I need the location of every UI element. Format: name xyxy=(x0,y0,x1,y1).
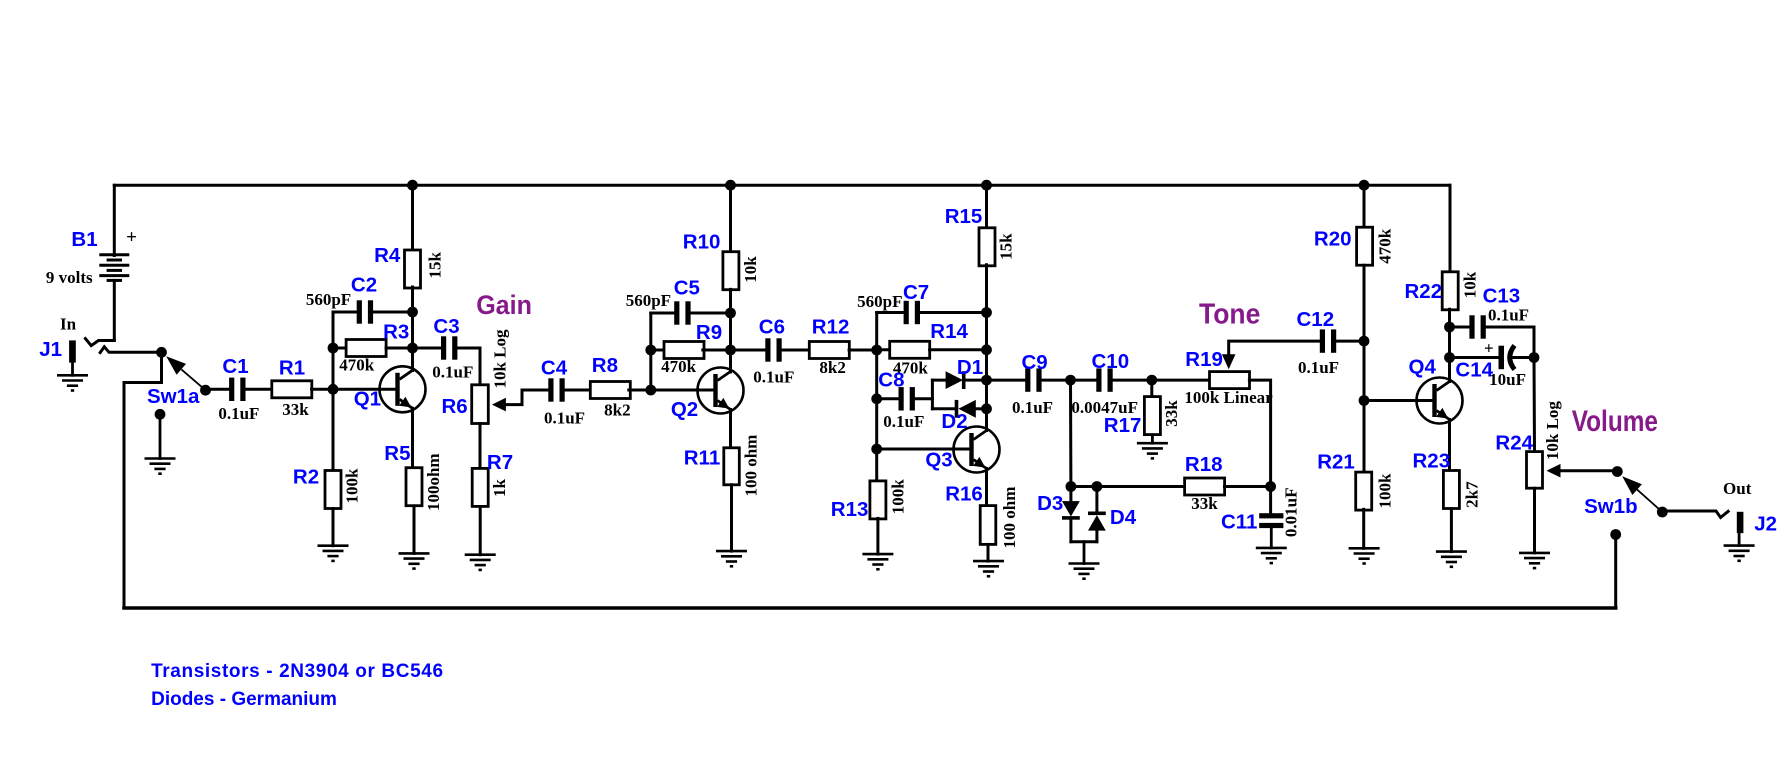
wire D2 left lead xyxy=(932,407,954,410)
capacitor C8 xyxy=(899,387,904,410)
wire R3 right lead xyxy=(386,347,412,350)
wire C7 left lead xyxy=(877,311,904,314)
node R18/C11 xyxy=(1265,481,1276,492)
transistor Q2 xyxy=(698,368,744,414)
transistor Q3 xyxy=(954,427,1000,473)
resistor R10 xyxy=(723,252,739,290)
svg-text:R5: R5 xyxy=(384,442,410,465)
wire R4 to collector xyxy=(411,287,414,371)
wire C7 right lead xyxy=(920,311,987,314)
svg-text:J2: J2 xyxy=(1754,512,1777,535)
ground J1 xyxy=(57,374,88,377)
wire battery positive lead xyxy=(113,185,116,255)
wire battery negative lead xyxy=(113,280,116,340)
svg-text:Q1: Q1 xyxy=(354,388,381,411)
resistor R13 xyxy=(870,481,886,519)
wire C3 to R6 xyxy=(457,348,480,385)
wiper arrow R6 xyxy=(492,398,506,412)
svg-text:0.1uF: 0.1uF xyxy=(544,408,585,427)
svg-text:R13: R13 xyxy=(831,498,869,521)
svg-text:R2: R2 xyxy=(293,466,319,489)
wire C14 right lead xyxy=(1514,356,1535,359)
diode D1 xyxy=(946,371,963,389)
wire R18 right lead xyxy=(1225,485,1271,488)
node C13 left xyxy=(1444,322,1455,333)
battery B1 xyxy=(99,255,129,281)
wire Q3 bias vertical xyxy=(875,313,878,482)
svg-text:8k2: 8k2 xyxy=(819,358,845,377)
wire R10 top lead xyxy=(729,185,732,252)
svg-text:560pF: 560pF xyxy=(857,292,902,311)
wire C5 left lead xyxy=(651,312,675,315)
wire D4 top lead xyxy=(1095,487,1098,513)
resistor R17 xyxy=(1144,397,1160,435)
ground R23 xyxy=(1436,550,1467,553)
svg-text:R12: R12 xyxy=(812,315,850,338)
svg-text:D1: D1 xyxy=(957,356,983,379)
svg-text:Gain: Gain xyxy=(476,290,532,320)
switch Sw1a arm arrow xyxy=(166,356,186,375)
resistor R4 xyxy=(405,250,421,288)
node C14 left xyxy=(1444,352,1455,363)
svg-text:C9: C9 xyxy=(1021,351,1047,374)
resistor R18 xyxy=(1185,478,1225,495)
wire R9 left lead xyxy=(651,349,665,352)
capacitor C12 xyxy=(1320,329,1325,352)
svg-text:2k7: 2k7 xyxy=(1463,481,1482,508)
node Sw1a common xyxy=(156,347,167,358)
wire D3 top lead xyxy=(1069,380,1072,486)
resistor R3 xyxy=(346,340,386,357)
junction dot top rail / R15 xyxy=(981,180,992,191)
ground C11 xyxy=(1256,547,1287,550)
jack J1 tip contact xyxy=(85,339,114,346)
svg-text:470k: 470k xyxy=(661,357,697,376)
junction dot top rail / R4 xyxy=(407,180,418,191)
resistor R16 xyxy=(980,506,996,545)
ground Sw1a xyxy=(145,457,176,460)
svg-text:8k2: 8k2 xyxy=(604,401,630,420)
svg-text:33k: 33k xyxy=(1162,400,1181,427)
wire Q3 out to C9 xyxy=(987,379,1026,382)
svg-text:C12: C12 xyxy=(1296,308,1334,331)
wire J2 ground stub xyxy=(1738,533,1741,546)
wire Q1 emitter lead xyxy=(411,408,414,467)
wire R8 to base node xyxy=(629,389,651,392)
resistor R11 xyxy=(724,448,740,485)
svg-text:R23: R23 xyxy=(1412,450,1450,473)
node D3 top xyxy=(1066,481,1077,492)
wire R10 to collector xyxy=(729,289,732,372)
wire R13 ground lead xyxy=(876,518,879,554)
svg-text:10k: 10k xyxy=(1460,271,1479,298)
switch Sw1a arm xyxy=(181,369,205,390)
svg-text:15k: 15k xyxy=(425,252,444,279)
wire bottom bypass rail xyxy=(124,606,1616,610)
switch Sw1b arm arrow xyxy=(1622,476,1642,495)
svg-text:100 ohm: 100 ohm xyxy=(742,435,761,497)
capacitor C4 xyxy=(548,378,553,401)
ground J2 xyxy=(1724,544,1755,547)
capacitor C7 xyxy=(904,301,909,324)
svg-text:C1: C1 xyxy=(222,355,248,378)
svg-text:560pF: 560pF xyxy=(626,291,671,310)
wire R5 ground lead xyxy=(413,506,416,554)
svg-text:10k: 10k xyxy=(741,256,760,283)
wire Q2 bias vertical xyxy=(649,313,652,390)
node Q2 base xyxy=(645,385,656,396)
node Sw1b common xyxy=(1612,466,1623,477)
diode D2 xyxy=(955,400,959,418)
wire C6 to R12 xyxy=(782,349,810,352)
wire R11 ground lead xyxy=(730,485,733,551)
svg-text:D3: D3 xyxy=(1037,492,1063,515)
ground R7 xyxy=(465,553,496,556)
wire Q2 emitter lead xyxy=(729,410,732,449)
wiper arrow R19 xyxy=(1222,354,1236,369)
svg-text:100ohm: 100ohm xyxy=(424,453,443,511)
node C9/C10/D3 xyxy=(1065,375,1076,386)
wire C5 right lead xyxy=(691,312,731,315)
svg-text:Out: Out xyxy=(1723,479,1752,498)
svg-text:R22: R22 xyxy=(1404,280,1442,303)
wire R18 left lead xyxy=(1183,485,1186,488)
node R9/collector xyxy=(725,345,736,356)
svg-text:R3: R3 xyxy=(383,320,409,343)
svg-text:R11: R11 xyxy=(684,446,720,469)
svg-text:R19: R19 xyxy=(1185,348,1223,371)
wire R20 down vertical xyxy=(1363,265,1366,474)
capacitor C3 xyxy=(441,336,446,359)
capacitor C5 xyxy=(674,301,679,324)
svg-text:C2: C2 xyxy=(351,274,377,297)
svg-text:0.01uF: 0.01uF xyxy=(1282,488,1301,538)
wire C3 left lead xyxy=(413,347,442,350)
node Sw1a ground pole xyxy=(155,409,166,420)
wire R4 top lead xyxy=(411,185,414,251)
potentiometer R19 xyxy=(1210,372,1250,389)
wire R19 right lead xyxy=(1249,380,1270,486)
svg-text:R7: R7 xyxy=(487,451,513,474)
wire R23 ground lead xyxy=(1450,509,1453,552)
wire C10 left lead xyxy=(1071,379,1097,382)
wire C13 right lead xyxy=(1485,327,1534,358)
switch Sw1b arm xyxy=(1637,490,1662,512)
svg-text:10k Log: 10k Log xyxy=(1543,401,1562,461)
svg-text:R14: R14 xyxy=(930,320,968,343)
wire R21 ground lead xyxy=(1362,509,1365,548)
wiper arrow R24 xyxy=(1547,464,1561,478)
wire C8 left lead xyxy=(877,397,899,400)
node C10/R17/R19 xyxy=(1146,375,1157,386)
wire C9 to D3 node xyxy=(1041,379,1070,382)
wire Q4 emitter lead xyxy=(1448,420,1451,471)
potentiometer R24 xyxy=(1527,452,1543,489)
node Q4 base xyxy=(1359,395,1370,406)
node Q3 base xyxy=(871,444,882,455)
wire D4 bottom lead xyxy=(1095,531,1098,542)
wire D3/D4 top row xyxy=(1071,485,1185,488)
node R9 left xyxy=(645,345,656,356)
wire R22 to Q4 collector xyxy=(1448,309,1451,381)
svg-text:Sw1b: Sw1b xyxy=(1584,495,1638,518)
wire bypass right riser xyxy=(1614,535,1617,609)
jack J1 sleeve contact xyxy=(100,347,161,353)
node R14 right xyxy=(981,344,992,355)
svg-text:R1: R1 xyxy=(279,357,305,380)
svg-text:10uF: 10uF xyxy=(1489,370,1526,389)
wire C14 left lead xyxy=(1450,356,1499,359)
wire Sw1a ground stub xyxy=(159,414,162,458)
wire R3 left lead xyxy=(333,347,346,350)
svg-text:Tone: Tone xyxy=(1199,299,1260,331)
wire rail to R22 xyxy=(1449,185,1452,272)
wire C12 right lead xyxy=(1336,340,1364,343)
wire R12 right lead xyxy=(849,349,877,352)
svg-text:470k: 470k xyxy=(1376,228,1395,264)
svg-text:R4: R4 xyxy=(374,244,401,267)
resistor R22 xyxy=(1442,272,1458,310)
wire Q2 collector to C6 xyxy=(731,349,766,352)
junction dot top rail / R20 xyxy=(1359,180,1370,191)
svg-text:C6: C6 xyxy=(759,315,785,338)
svg-text:R20: R20 xyxy=(1314,227,1352,250)
svg-text:470k: 470k xyxy=(339,356,375,375)
svg-text:C5: C5 xyxy=(674,277,700,300)
svg-text:R10: R10 xyxy=(683,231,721,254)
resistor R12 xyxy=(809,342,849,359)
capacitor C13 xyxy=(1469,315,1474,338)
svg-text:33k: 33k xyxy=(282,400,309,419)
wire D3/D4 ground stub xyxy=(1083,542,1086,564)
resistor R14 xyxy=(890,341,930,358)
svg-text:100k: 100k xyxy=(1376,473,1395,509)
svg-text:R16: R16 xyxy=(945,483,983,506)
wire R15 top lead xyxy=(985,185,988,229)
wire R16 ground lead xyxy=(987,544,990,561)
resistor R20 xyxy=(1357,227,1373,265)
wire R17 top lead xyxy=(1150,380,1153,397)
svg-text:+: + xyxy=(1484,339,1494,358)
diode D3 xyxy=(1062,501,1080,516)
svg-text:C3: C3 xyxy=(433,315,459,338)
wire R14 right lead xyxy=(930,348,987,351)
wire bypass down-left xyxy=(124,352,162,607)
node R12/R14/C7 xyxy=(871,345,882,356)
node Sw1a throw xyxy=(200,385,211,396)
svg-text:0.1uF: 0.1uF xyxy=(432,363,473,382)
svg-text:R17: R17 xyxy=(1104,414,1142,437)
svg-text:33k: 33k xyxy=(1191,494,1218,513)
wire R9 right lead xyxy=(703,349,731,352)
wire D3 bottom lead xyxy=(1069,520,1072,542)
node R3 left xyxy=(328,343,339,354)
resistor R5 xyxy=(406,468,422,506)
ground R17 xyxy=(1137,442,1168,445)
wire R24 wiper to Sw1b xyxy=(1561,469,1618,472)
svg-text:C4: C4 xyxy=(541,357,568,380)
node D4 top xyxy=(1092,481,1103,492)
wire D3/D4 bottom bar xyxy=(1071,540,1097,543)
svg-text:R8: R8 xyxy=(592,354,618,377)
svg-text:R9: R9 xyxy=(696,321,722,344)
jack J2 body xyxy=(1737,512,1744,533)
svg-text:R24: R24 xyxy=(1495,432,1533,455)
wire R15 down vertical xyxy=(985,265,988,431)
node Sw1b throw xyxy=(1657,507,1668,518)
capacitor C1 xyxy=(229,378,234,401)
resistor R7 xyxy=(472,468,488,506)
capacitor C9 xyxy=(1025,368,1030,391)
wire C4 to R8 xyxy=(565,389,592,392)
wire D1 right lead xyxy=(966,379,987,382)
svg-text:100k: 100k xyxy=(889,479,908,515)
svg-text:100 ohm: 100 ohm xyxy=(1000,487,1019,549)
svg-text:560pF: 560pF xyxy=(306,290,351,309)
wire Q1 bias vertical xyxy=(332,312,335,389)
node C8 left xyxy=(871,393,882,404)
resistor R21 xyxy=(1356,472,1372,510)
wire C11 top lead xyxy=(1269,487,1272,514)
wire C11 ground lead xyxy=(1270,528,1273,548)
wire R19 wiper to C12 xyxy=(1229,341,1320,354)
wire C13 left lead xyxy=(1450,326,1470,329)
svg-text:0.1uF: 0.1uF xyxy=(218,404,259,423)
junction dot top rail / R10 xyxy=(725,180,736,191)
wire base node to Q2 xyxy=(651,389,714,392)
resistor R15 xyxy=(979,228,995,266)
svg-text:R6: R6 xyxy=(441,395,467,418)
svg-text:J1: J1 xyxy=(39,338,62,361)
wire D1 left lead xyxy=(932,379,945,382)
svg-text:Q3: Q3 xyxy=(925,449,952,472)
wire D2 right lead xyxy=(976,407,987,410)
svg-text:R18: R18 xyxy=(1185,453,1223,476)
svg-text:R15: R15 xyxy=(945,205,983,228)
wire R2 top lead xyxy=(332,389,335,470)
resistor R2 xyxy=(325,471,341,509)
svg-text:C14: C14 xyxy=(1455,359,1493,382)
svg-text:R21: R21 xyxy=(1317,451,1355,474)
svg-text:0.1uF: 0.1uF xyxy=(1012,398,1053,417)
svg-text:Q2: Q2 xyxy=(671,398,698,421)
resistor R9 xyxy=(664,342,704,359)
wire R24 ground lead xyxy=(1533,488,1536,553)
wire C8 right lead xyxy=(915,397,933,400)
svg-text:B1: B1 xyxy=(71,228,97,251)
wire R17 ground lead xyxy=(1151,435,1154,444)
ground R11 xyxy=(716,550,747,553)
node D1/C9 xyxy=(981,375,992,386)
node C7/R15 xyxy=(981,307,992,318)
ground R5 xyxy=(399,552,430,555)
node Q1 base xyxy=(328,384,339,395)
svg-text:0.1uF: 0.1uF xyxy=(1298,358,1339,377)
svg-text:100k Linear: 100k Linear xyxy=(1184,388,1273,407)
node D2 right xyxy=(981,403,992,414)
svg-text:D4: D4 xyxy=(1110,506,1137,529)
transistor Q1 xyxy=(380,366,426,412)
transistor Q4 xyxy=(1417,378,1463,424)
svg-text:0.1uF: 0.1uF xyxy=(753,367,794,386)
node C5/R10 xyxy=(725,308,736,319)
wire base node to Q3 xyxy=(877,448,970,451)
wire R7 ground lead xyxy=(479,507,482,555)
wire Sw1b to J2 xyxy=(1662,511,1728,518)
node R3/collector xyxy=(407,343,418,354)
svg-text:Volume: Volume xyxy=(1572,405,1658,438)
wire R20 top lead xyxy=(1363,185,1366,227)
capacitor C11 xyxy=(1259,513,1283,518)
resistor R23 xyxy=(1443,471,1459,509)
svg-text:Sw1a: Sw1a xyxy=(147,385,200,408)
svg-text:9 volts: 9 volts xyxy=(46,268,93,287)
ground R24 xyxy=(1519,552,1550,555)
svg-text:C13: C13 xyxy=(1483,284,1521,307)
svg-text:100k: 100k xyxy=(343,468,362,504)
wire Q3 emitter lead xyxy=(985,469,988,506)
wire R2 ground lead xyxy=(332,509,335,546)
wire C2 left lead xyxy=(333,311,357,314)
wire C2 right lead xyxy=(373,311,413,314)
node C12/R20 xyxy=(1359,336,1370,347)
svg-text:0.1uF: 0.1uF xyxy=(1488,306,1529,325)
wire C14 to R24 xyxy=(1533,358,1537,452)
svg-text:0.1uF: 0.1uF xyxy=(883,412,924,431)
wire R14 left lead xyxy=(877,348,890,351)
resistor R1 xyxy=(272,381,312,398)
svg-text:+: + xyxy=(126,227,137,248)
jack J1 body xyxy=(69,340,76,362)
wire base node to Q4 xyxy=(1364,399,1433,402)
svg-text:C11: C11 xyxy=(1221,510,1257,533)
capacitor C14 electrolytic xyxy=(1499,346,1505,370)
wire top power rail xyxy=(114,184,1450,187)
svg-text:C8: C8 xyxy=(878,369,904,392)
svg-text:C10: C10 xyxy=(1091,350,1129,373)
node C2/R4 xyxy=(407,307,418,318)
node Sw1b output pole xyxy=(1610,529,1621,540)
capacitor C10 xyxy=(1096,368,1101,391)
svg-text:15k: 15k xyxy=(997,233,1016,260)
wire C1 to R1 xyxy=(245,388,272,391)
svg-text:1k: 1k xyxy=(490,478,509,497)
capacitor C2 xyxy=(357,300,362,323)
wire R19 left lead xyxy=(1152,379,1210,382)
ground R13 xyxy=(862,553,893,556)
wire R1 to base node xyxy=(312,388,333,391)
wire Sw1a to C1 xyxy=(206,388,230,391)
wire C10 right lead xyxy=(1113,379,1152,382)
wire R6 wiper to C4 xyxy=(506,390,548,405)
svg-text:Q4: Q4 xyxy=(1409,356,1437,379)
svg-text:C7: C7 xyxy=(903,281,929,304)
wire J1 ground stub xyxy=(71,363,74,376)
ground D3/D4 xyxy=(1069,562,1100,565)
potentiometer R6 xyxy=(472,385,489,424)
ground R16 xyxy=(973,560,1004,563)
wire D1/D2 bracket xyxy=(931,380,934,409)
svg-text:Transistors - 2N3904 or BC546: Transistors - 2N3904 or BC546 xyxy=(151,661,444,682)
wire D3 to anode xyxy=(1069,487,1072,502)
wire R6 bottom lead xyxy=(479,424,482,468)
ground R2 xyxy=(318,544,349,547)
diode D4 xyxy=(1088,512,1106,516)
node C14 right xyxy=(1529,352,1540,363)
svg-text:10k Log: 10k Log xyxy=(491,329,510,389)
svg-text:Diodes - Germanium: Diodes - Germanium xyxy=(151,689,337,710)
ground R21 xyxy=(1349,547,1380,550)
